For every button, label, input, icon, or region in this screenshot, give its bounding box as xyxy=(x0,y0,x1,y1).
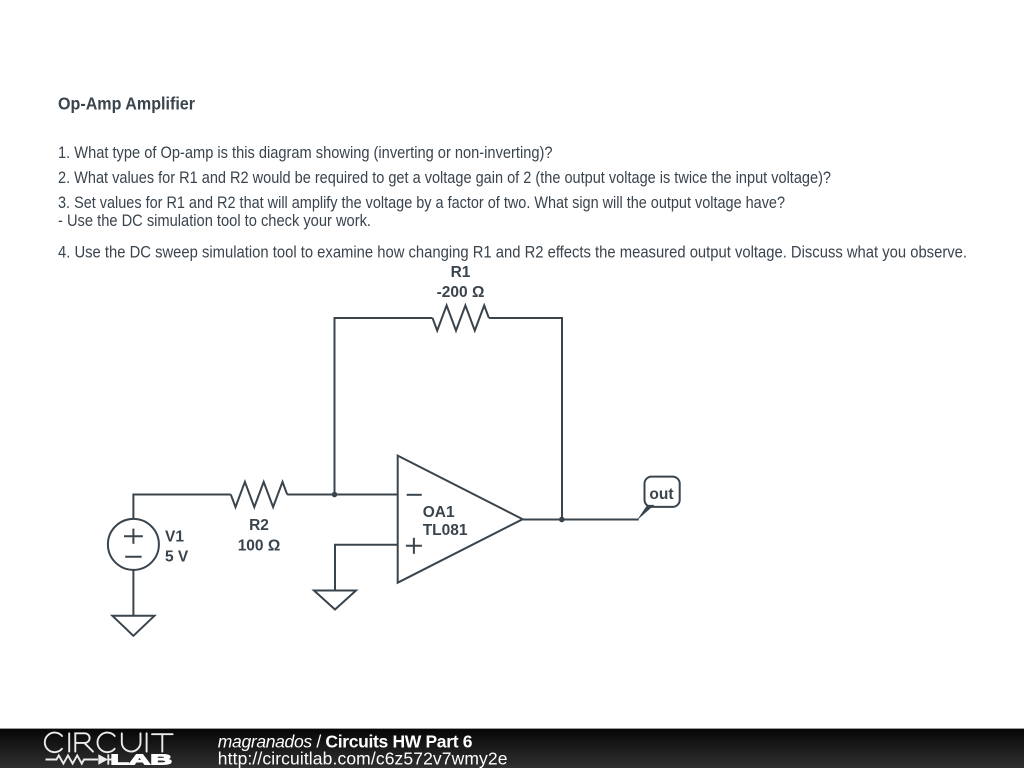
svg-text:1. What type of Op-amp is this: 1. What type of Op-amp is this diagram s… xyxy=(58,143,553,162)
svg-text:Op-Amp Amplifier: Op-Amp Amplifier xyxy=(58,94,195,114)
svg-text:LAB: LAB xyxy=(111,753,173,768)
svg-text:4. Use the DC sweep simulation: 4. Use the DC sweep simulation tool to e… xyxy=(58,243,967,262)
svg-text:2. What values for R1 and R2 w: 2. What values for R1 and R2 would be re… xyxy=(58,168,831,187)
svg-text:5 V: 5 V xyxy=(165,548,189,565)
svg-text:http://circuitlab.com/c6z572v7: http://circuitlab.com/c6z572v7wmy2e xyxy=(218,749,508,768)
svg-text:out: out xyxy=(649,486,673,503)
svg-text:-200 Ω: -200 Ω xyxy=(437,284,485,301)
svg-text:OA1: OA1 xyxy=(423,504,455,521)
svg-text:- Use the DC simulation tool t: - Use the DC simulation tool to check yo… xyxy=(58,211,371,230)
svg-text:3. Set values for R1 and R2 th: 3. Set values for R1 and R2 that will am… xyxy=(58,193,785,212)
svg-text:V1: V1 xyxy=(165,529,184,546)
svg-text:TL081: TL081 xyxy=(423,522,468,539)
svg-text:100 Ω: 100 Ω xyxy=(238,537,281,554)
svg-text:R1: R1 xyxy=(451,264,471,281)
svg-text:R2: R2 xyxy=(249,517,269,534)
